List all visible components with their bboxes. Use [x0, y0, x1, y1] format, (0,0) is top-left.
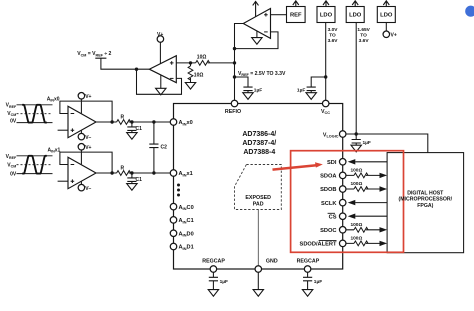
svg-text:FPGA): FPGA)	[417, 203, 433, 209]
svg-text:AINC1: AINC1	[179, 218, 194, 224]
svg-text:TO: TO	[360, 32, 367, 38]
svg-text:PAD: PAD	[253, 201, 264, 207]
svg-text:LDO: LDO	[349, 13, 362, 19]
svg-text:REGCAP: REGCAP	[297, 259, 320, 265]
svg-text:AINx1: AINx1	[48, 147, 61, 153]
svg-text:1µF: 1µF	[297, 87, 305, 93]
svg-text:3.6V: 3.6V	[328, 38, 339, 44]
svg-text:V+: V+	[85, 94, 91, 100]
svg-text:(MICROPROCESSOR/: (MICROPROCESSOR/	[398, 197, 452, 203]
svg-text:SDI: SDI	[327, 160, 337, 166]
svg-text:100Ω: 100Ω	[350, 168, 362, 174]
svg-text:V+: V+	[157, 32, 163, 38]
svg-text:AIND1: AIND1	[179, 245, 194, 251]
svg-text:AD7388-4: AD7388-4	[243, 149, 275, 156]
svg-text:SDOA: SDOA	[320, 174, 336, 180]
svg-text:10Ω: 10Ω	[194, 72, 204, 78]
svg-text:AINx0: AINx0	[47, 96, 60, 102]
svg-text:REGCAP: REGCAP	[202, 259, 225, 265]
svg-text:AIND0: AIND0	[179, 231, 194, 237]
svg-text:0V: 0V	[10, 171, 17, 177]
svg-text:100Ω: 100Ω	[350, 236, 362, 242]
svg-text:SCLK: SCLK	[321, 201, 337, 207]
svg-text:C1: C1	[136, 177, 143, 183]
svg-text:C1: C1	[136, 126, 143, 132]
svg-text:1.65V: 1.65V	[357, 27, 370, 33]
svg-text:AD7386-4/: AD7386-4/	[242, 131, 276, 138]
svg-text:10Ω: 10Ω	[197, 54, 207, 60]
svg-text:3.6V: 3.6V	[359, 38, 370, 44]
svg-text:0V: 0V	[10, 118, 17, 124]
svg-text:SDOB: SDOB	[320, 187, 336, 193]
svg-text:LDO: LDO	[320, 13, 333, 19]
svg-text:100Ω: 100Ω	[350, 181, 362, 187]
svg-text:C2: C2	[161, 144, 168, 150]
svg-text:V+: V+	[85, 145, 91, 151]
svg-text:3.0V: 3.0V	[328, 27, 339, 33]
svg-text:100Ω: 100Ω	[350, 222, 362, 228]
svg-text:AINx1: AINx1	[179, 171, 193, 177]
svg-text:GND: GND	[266, 259, 278, 265]
svg-text:AINC0: AINC0	[179, 205, 194, 211]
svg-text:REFIO: REFIO	[225, 109, 241, 115]
svg-text:AINx0: AINx0	[179, 120, 193, 126]
svg-text:V+: V+	[391, 33, 397, 39]
svg-text:CS: CS	[329, 214, 337, 220]
svg-text:1µF: 1µF	[220, 279, 228, 285]
svg-text:V−: V−	[85, 186, 91, 192]
svg-text:SDOD/ALERT: SDOD/ALERT	[300, 242, 337, 248]
svg-text:TO: TO	[329, 32, 336, 38]
svg-text:AD7387-4/: AD7387-4/	[242, 140, 276, 147]
svg-text:R: R	[120, 115, 124, 121]
svg-text:1µF: 1µF	[254, 87, 262, 93]
svg-text:1µF: 1µF	[314, 279, 322, 285]
svg-text:DIGITAL HOST: DIGITAL HOST	[407, 191, 444, 197]
svg-text:LDO: LDO	[380, 13, 393, 19]
svg-text:1µF: 1µF	[363, 140, 371, 146]
svg-text:R: R	[120, 166, 124, 172]
svg-text:EXPOSED: EXPOSED	[245, 195, 271, 201]
svg-text:SDOC: SDOC	[320, 228, 336, 234]
svg-text:REF: REF	[290, 13, 302, 19]
svg-text:V−: V−	[85, 135, 91, 141]
